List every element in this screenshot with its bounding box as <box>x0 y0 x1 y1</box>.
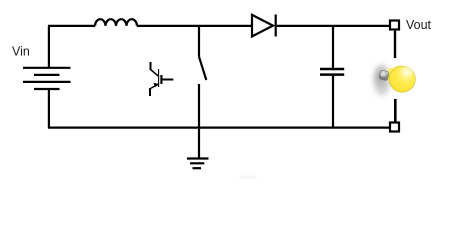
svg-text:Vin: Vin <box>12 45 30 59</box>
lamp glass globe <box>387 63 418 94</box>
lamp glass neck <box>388 65 403 87</box>
transistor Q1 (MOSFET glyph) <box>150 62 173 96</box>
lamp (light bulb icon) <box>374 61 418 95</box>
diode D1 <box>252 15 276 37</box>
switch S1 (ideal switch, open) <box>199 26 206 128</box>
wire top rail: inductor to diode <box>137 25 252 27</box>
terminal square Vout- <box>390 123 399 132</box>
faint artifact smudge <box>239 176 257 180</box>
svg-text:Vout: Vout <box>406 18 432 32</box>
wire top rail: battery to inductor <box>48 25 95 27</box>
ground <box>187 128 209 169</box>
capacitor C1 <box>320 26 344 128</box>
lamp metal base <box>379 70 390 81</box>
terminal square Vout+ <box>390 21 399 30</box>
wire terminal to bulb <box>394 31 396 58</box>
inductor L1 <box>95 19 137 26</box>
bottom rail wire <box>48 126 389 128</box>
wire bulb to bottom terminal <box>394 99 397 122</box>
battery V1 (Vin source) <box>23 26 71 128</box>
wire top rail: diode to Vout terminal <box>277 25 389 27</box>
